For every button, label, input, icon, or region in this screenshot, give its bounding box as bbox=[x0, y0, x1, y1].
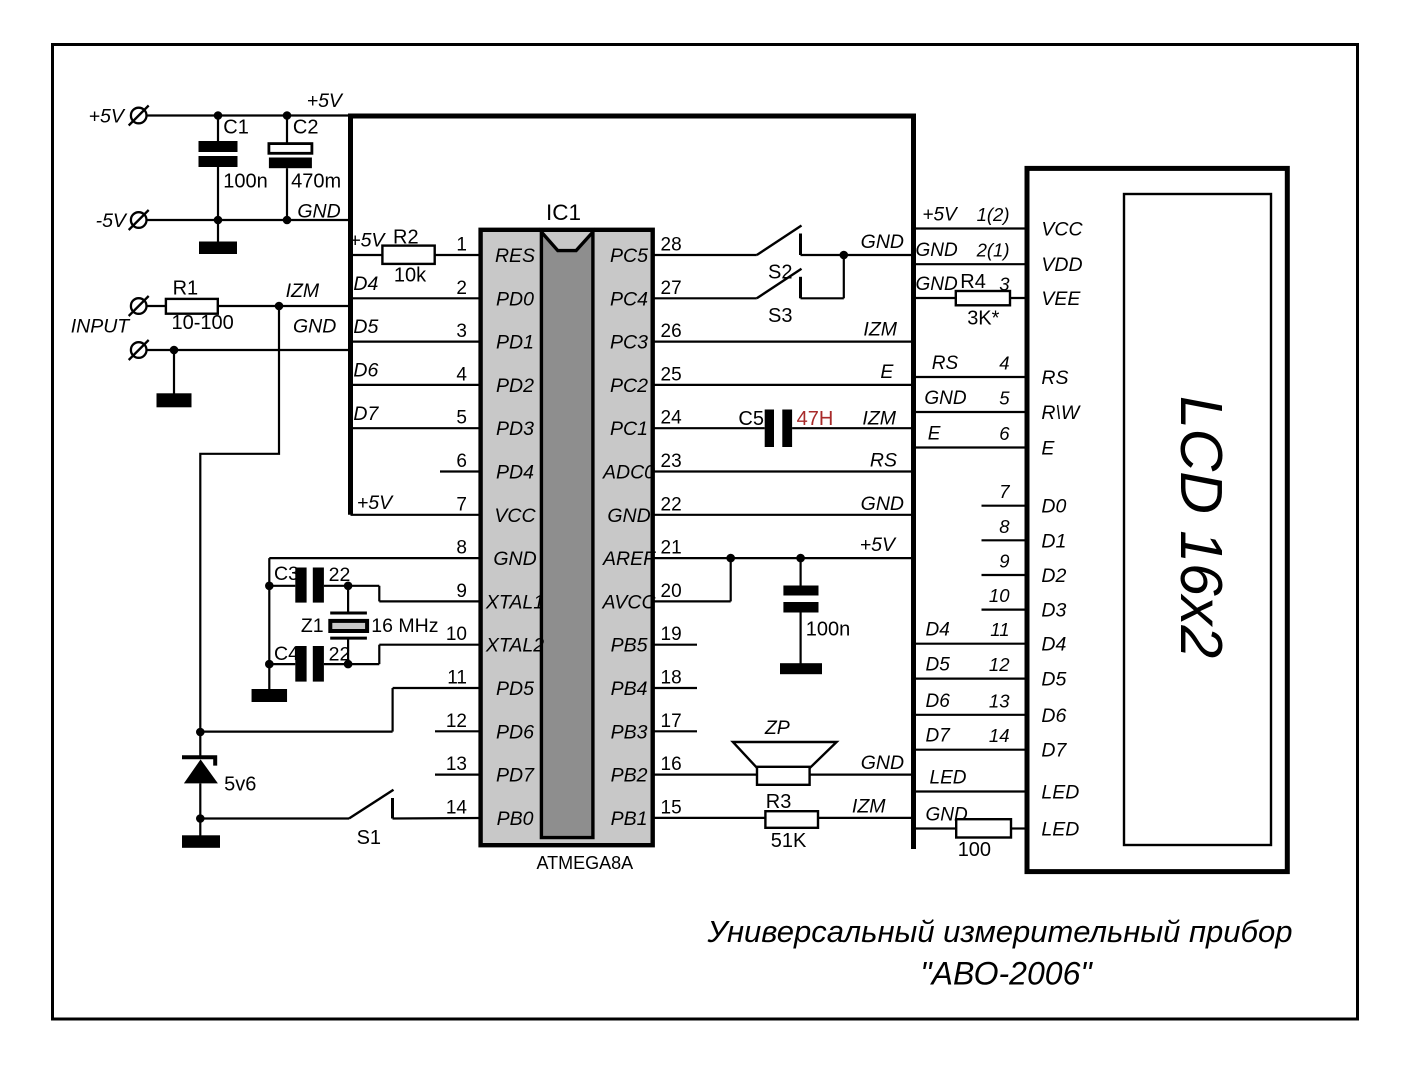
wire input GND to bus bbox=[147, 316, 353, 351]
svg-text:D6: D6 bbox=[353, 360, 378, 382]
svg-text:D5: D5 bbox=[1041, 669, 1066, 691]
value 5v6 (zener) bbox=[224, 774, 256, 796]
svg-text:9: 9 bbox=[999, 551, 1009, 572]
wire IZM to bus bbox=[218, 280, 352, 306]
svg-text:15: 15 bbox=[661, 797, 682, 818]
bus right vertical (thick) bbox=[911, 114, 916, 850]
svg-text:XTAL2: XTAL2 bbox=[485, 635, 544, 657]
zener diode 5v6 bbox=[182, 732, 218, 819]
svg-text:8: 8 bbox=[999, 516, 1010, 537]
wire D7 (pin 5) bbox=[353, 403, 481, 428]
wire PD5 (pin 11) to zener node bbox=[200, 688, 480, 732]
svg-text:RES: RES bbox=[495, 245, 535, 267]
capacitor 100n (AREF) bbox=[783, 558, 818, 664]
node junction C1 top bbox=[214, 111, 223, 120]
wire D5 (pin 3) bbox=[353, 316, 481, 342]
svg-text:PB0: PB0 bbox=[497, 808, 534, 830]
net label GND (pin28) bbox=[861, 231, 904, 253]
wire LCD pin 5 bbox=[916, 388, 1027, 413]
svg-text:7: 7 bbox=[999, 481, 1010, 502]
svg-text:20: 20 bbox=[661, 581, 682, 602]
wire R2 to pin 1 bbox=[435, 254, 481, 256]
caption line 1 bbox=[707, 914, 1293, 949]
svg-text:11: 11 bbox=[447, 668, 467, 689]
wire D6 (pin 4) bbox=[353, 360, 481, 385]
value 16 MHz (Z1) bbox=[371, 615, 438, 637]
svg-text:RS: RS bbox=[1041, 367, 1068, 389]
svg-text:D7: D7 bbox=[353, 403, 379, 425]
svg-text:1(2): 1(2) bbox=[977, 204, 1010, 225]
svg-text:13: 13 bbox=[446, 754, 467, 775]
svg-text:C5: C5 bbox=[738, 408, 764, 430]
svg-text:AVCC: AVCC bbox=[601, 591, 656, 613]
svg-text:22: 22 bbox=[329, 643, 351, 665]
svg-text:S2: S2 bbox=[768, 262, 792, 284]
capacitor C3 bbox=[269, 563, 348, 603]
switch S3 (pin 27) bbox=[653, 255, 844, 327]
wire D4 (pin 2) bbox=[353, 273, 481, 298]
stub pin 19 PB5 bbox=[653, 644, 697, 646]
svg-text:D7: D7 bbox=[1041, 740, 1067, 762]
net label GND (power) bbox=[297, 201, 340, 223]
op IC1 body (ATMEGA8A) bbox=[481, 230, 653, 845]
svg-text:R1: R1 bbox=[173, 278, 199, 300]
wire LCD pin 12 bbox=[916, 654, 1027, 679]
bus left vertical (thick) bbox=[348, 114, 353, 515]
wire LCD pin 14 bbox=[916, 725, 1027, 750]
svg-text:R3: R3 bbox=[766, 791, 792, 813]
svg-text:"АВО-2006": "АВО-2006" bbox=[920, 956, 1093, 992]
ground (zener) bbox=[182, 819, 220, 848]
label ATMEGA8A bbox=[537, 853, 634, 873]
svg-text:+5V: +5V bbox=[307, 90, 344, 112]
terminal INPUT ground bbox=[129, 340, 149, 360]
crystal Z1 16 MHz bbox=[301, 586, 367, 664]
svg-text:5: 5 bbox=[999, 388, 1010, 409]
wire VCC +5V (pin 7) bbox=[351, 492, 481, 515]
svg-text:26: 26 bbox=[661, 321, 682, 342]
label LCD 16x2 bbox=[1168, 396, 1234, 658]
svg-text:16: 16 bbox=[661, 754, 682, 775]
svg-text:4: 4 bbox=[456, 364, 467, 385]
wire LCD pin 16 bbox=[916, 805, 1027, 829]
value 100n (AREF cap) bbox=[806, 619, 851, 641]
svg-text:4: 4 bbox=[999, 353, 1009, 374]
svg-text:D5: D5 bbox=[353, 316, 378, 338]
svg-text:INPUT: INPUT bbox=[71, 316, 132, 338]
ground (crystal) bbox=[252, 689, 287, 702]
caption line 2 bbox=[920, 956, 1093, 992]
bus +5V top (thick) bbox=[348, 114, 916, 119]
stub LCD pin 7 bbox=[982, 481, 1028, 506]
svg-text:RS: RS bbox=[932, 353, 959, 374]
svg-text:GND: GND bbox=[607, 505, 650, 527]
wire XTAL1 jog (pin 9) bbox=[348, 586, 481, 602]
stub LCD pin 10 bbox=[982, 585, 1028, 610]
svg-text:R4: R4 bbox=[960, 271, 986, 293]
resistor 100 (LED) bbox=[956, 819, 1011, 837]
wire -5V/GND to bus bbox=[147, 216, 353, 225]
svg-text:PB2: PB2 bbox=[611, 765, 648, 787]
svg-text:E: E bbox=[1041, 438, 1055, 460]
svg-text:25: 25 bbox=[661, 364, 682, 385]
value 470m (C2) bbox=[291, 171, 341, 193]
svg-text:100n: 100n bbox=[223, 171, 267, 193]
resistor R2 bbox=[349, 227, 434, 264]
IC1 left pin names and numbers 1-14 bbox=[446, 235, 544, 830]
svg-text:LED: LED bbox=[930, 768, 967, 789]
wire LCD pin 3 bbox=[916, 274, 1028, 299]
switch S2 (pin 28) bbox=[653, 226, 916, 284]
svg-text:VDD: VDD bbox=[1041, 254, 1082, 276]
svg-text:9: 9 bbox=[456, 581, 467, 602]
terminal -5V input bbox=[96, 210, 149, 232]
node crystal top junction bbox=[344, 582, 353, 591]
svg-text:Универсальный измерительный пр: Универсальный измерительный прибор bbox=[707, 914, 1293, 949]
wire XTAL2 jog (pin 10) bbox=[348, 645, 481, 664]
svg-text:12: 12 bbox=[446, 711, 467, 732]
svg-text:+5V: +5V bbox=[349, 230, 386, 252]
svg-text:IC1: IC1 bbox=[546, 200, 581, 225]
capacitor C4 bbox=[269, 643, 348, 682]
resistor R3 (pin 15) bbox=[653, 791, 916, 828]
svg-text:R2: R2 bbox=[393, 227, 419, 249]
svg-text:C3: C3 bbox=[274, 563, 299, 585]
svg-text:28: 28 bbox=[661, 235, 682, 256]
node input-gnd junction bbox=[170, 346, 179, 355]
net label GND (pin16) bbox=[861, 752, 904, 774]
svg-text:LED: LED bbox=[1041, 782, 1079, 804]
LCD pin labels VCC..LED bbox=[1041, 219, 1083, 841]
svg-text:XTAL1: XTAL1 bbox=[485, 591, 544, 613]
wire LCD pin 4 bbox=[916, 353, 1027, 378]
svg-text:18: 18 bbox=[661, 668, 682, 689]
wire IZM down to zener node bbox=[200, 306, 279, 732]
svg-text:+5V: +5V bbox=[89, 105, 126, 127]
value 3K* (R4) bbox=[967, 308, 999, 330]
svg-text:11: 11 bbox=[990, 619, 1009, 640]
svg-text:2(1): 2(1) bbox=[976, 240, 1010, 261]
value 100n (C1) bbox=[223, 171, 267, 193]
svg-text:D4: D4 bbox=[353, 273, 378, 295]
svg-text:E: E bbox=[928, 424, 941, 445]
wire LCD pin 2 bbox=[916, 240, 1028, 265]
svg-text:PD6: PD6 bbox=[496, 721, 534, 743]
node C4 left junction bbox=[265, 660, 274, 669]
svg-text:21: 21 bbox=[661, 538, 682, 559]
svg-text:VEE: VEE bbox=[1041, 288, 1081, 310]
wire +5V input to bus bbox=[147, 114, 353, 116]
capacitor C2 (polarized) bbox=[269, 116, 319, 221]
svg-text:10: 10 bbox=[989, 585, 1010, 606]
resistor R1 bbox=[147, 278, 218, 314]
label IC1 bbox=[546, 200, 581, 225]
wire LCD pin 15 bbox=[916, 768, 1027, 792]
svg-text:100: 100 bbox=[958, 839, 991, 861]
svg-text:C1: C1 bbox=[223, 117, 249, 139]
svg-text:RS: RS bbox=[870, 450, 897, 472]
svg-text:5: 5 bbox=[456, 408, 467, 429]
svg-text:PD5: PD5 bbox=[496, 678, 534, 700]
svg-text:10-100: 10-100 bbox=[172, 312, 234, 334]
ground (100n cap) bbox=[780, 663, 822, 674]
svg-text:51K: 51K bbox=[771, 830, 807, 852]
LCD module block bbox=[1027, 168, 1287, 871]
svg-text:PC3: PC3 bbox=[610, 332, 648, 354]
svg-text:PD4: PD4 bbox=[496, 462, 534, 484]
svg-text:IZM: IZM bbox=[862, 408, 896, 430]
svg-text:S3: S3 bbox=[768, 305, 792, 327]
svg-text:PD7: PD7 bbox=[496, 765, 535, 787]
svg-text:IZM: IZM bbox=[863, 319, 897, 341]
svg-text:+5V: +5V bbox=[357, 492, 394, 514]
value 10-100 (R1) bbox=[172, 312, 234, 334]
svg-text:5v6: 5v6 bbox=[224, 774, 256, 796]
terminal +5V input bbox=[89, 105, 149, 127]
svg-text:D2: D2 bbox=[1041, 565, 1066, 587]
svg-text:3: 3 bbox=[456, 321, 467, 342]
ground (below C1) bbox=[199, 220, 237, 254]
svg-text:S1: S1 bbox=[357, 827, 381, 849]
svg-text:23: 23 bbox=[661, 451, 682, 472]
svg-text:D6: D6 bbox=[1041, 705, 1066, 727]
svg-text:GND: GND bbox=[493, 548, 536, 570]
wire GND pin 8 net bbox=[269, 558, 480, 690]
svg-text:ADC0: ADC0 bbox=[602, 462, 655, 484]
svg-text:PD0: PD0 bbox=[496, 288, 534, 310]
svg-text:PC2: PC2 bbox=[610, 375, 648, 397]
svg-text:13: 13 bbox=[989, 690, 1010, 711]
svg-text:D4: D4 bbox=[926, 620, 950, 641]
svg-text:14: 14 bbox=[989, 725, 1010, 746]
svg-text:LCD 16x2: LCD 16x2 bbox=[1168, 396, 1234, 658]
svg-text:PD1: PD1 bbox=[496, 332, 534, 354]
wire AVCC (pin 20) bbox=[653, 558, 731, 601]
wire GND (pin 22) bbox=[653, 493, 916, 515]
svg-text:47Н: 47Н bbox=[797, 408, 834, 430]
svg-text:PB5: PB5 bbox=[611, 635, 648, 657]
value 51K (R3) bbox=[771, 830, 807, 852]
svg-text:ZP: ZP bbox=[764, 717, 790, 739]
stub pin 6 PD4 bbox=[440, 470, 481, 472]
svg-text:GND: GND bbox=[293, 316, 336, 338]
wire LCD pin 6 bbox=[916, 423, 1027, 448]
stub pin 18 PB4 bbox=[653, 687, 697, 689]
svg-text:6: 6 bbox=[456, 451, 467, 472]
wire E (pin 25) bbox=[653, 361, 916, 385]
value 100 (LED resistor) bbox=[958, 839, 991, 861]
svg-text:PC5: PC5 bbox=[610, 245, 648, 267]
svg-text:16 MHz: 16 MHz bbox=[371, 615, 438, 637]
node 100n junction bbox=[796, 554, 805, 563]
svg-text:PD3: PD3 bbox=[496, 418, 534, 440]
svg-text:D5: D5 bbox=[926, 655, 951, 676]
svg-text:24: 24 bbox=[661, 408, 683, 429]
buzzer ZP (pin 16) bbox=[653, 717, 916, 785]
svg-text:10k: 10k bbox=[394, 265, 427, 287]
capacitor C1 bbox=[199, 116, 249, 221]
svg-text:IZM: IZM bbox=[852, 796, 886, 818]
svg-text:+5V: +5V bbox=[922, 205, 959, 226]
svg-text:470m: 470m bbox=[291, 171, 341, 193]
svg-text:PB1: PB1 bbox=[611, 808, 648, 830]
ground (input) bbox=[157, 350, 192, 407]
value 22 (C3) bbox=[329, 564, 351, 586]
node crystal bottom junction bbox=[344, 660, 353, 669]
svg-text:GND: GND bbox=[924, 388, 967, 409]
svg-text:VCC: VCC bbox=[1041, 219, 1083, 241]
svg-text:R\W: R\W bbox=[1041, 402, 1081, 424]
svg-text:D3: D3 bbox=[1041, 600, 1066, 622]
svg-text:AREF: AREF bbox=[602, 548, 656, 570]
switch S1 bbox=[200, 790, 480, 849]
svg-text:D6: D6 bbox=[926, 691, 951, 712]
node junction C2 top bbox=[283, 90, 344, 120]
svg-text:7: 7 bbox=[456, 494, 467, 515]
svg-text:D1: D1 bbox=[1041, 530, 1066, 552]
svg-text:GND: GND bbox=[861, 752, 904, 774]
svg-text:LED: LED bbox=[1041, 819, 1079, 841]
svg-text:+5V: +5V bbox=[860, 534, 897, 556]
svg-text:6: 6 bbox=[999, 423, 1010, 444]
value 10k (R2) bbox=[394, 265, 427, 287]
value 47H (C5) bbox=[797, 408, 834, 430]
svg-text:D0: D0 bbox=[1041, 496, 1066, 518]
svg-text:12: 12 bbox=[989, 654, 1010, 675]
wire IZM (pin 26) bbox=[653, 319, 916, 342]
stub pin 13 PD7 bbox=[435, 773, 481, 775]
capacitor C5 (pin 24) bbox=[653, 408, 916, 447]
node IZM junction bbox=[275, 302, 284, 311]
svg-text:3K*: 3K* bbox=[967, 308, 999, 330]
wire LCD pin 11 bbox=[916, 619, 1027, 644]
resistor R4 bbox=[956, 271, 1010, 305]
svg-text:GND: GND bbox=[916, 240, 959, 261]
svg-text:17: 17 bbox=[661, 711, 682, 732]
svg-text:VCC: VCC bbox=[494, 505, 536, 527]
svg-text:100n: 100n bbox=[806, 619, 851, 641]
net label IZM (pin24) bbox=[862, 408, 896, 430]
wire LCD pin 13 bbox=[916, 690, 1027, 715]
wire LCD pin 1 bbox=[916, 204, 1027, 229]
svg-text:PB3: PB3 bbox=[611, 721, 648, 743]
svg-text:22: 22 bbox=[661, 494, 682, 515]
IC1 right pin names and numbers 28-15 bbox=[601, 235, 682, 830]
value 22 (C4) bbox=[329, 643, 351, 665]
svg-text:14: 14 bbox=[446, 797, 468, 818]
svg-text:2: 2 bbox=[456, 278, 467, 299]
node C3 left junction bbox=[265, 582, 274, 591]
svg-text:8: 8 bbox=[456, 538, 467, 559]
svg-text:E: E bbox=[880, 361, 894, 383]
svg-text:ATMEGA8A: ATMEGA8A bbox=[537, 853, 634, 873]
svg-text:D4: D4 bbox=[1041, 634, 1066, 656]
svg-text:C2: C2 bbox=[293, 117, 319, 139]
svg-text:PC4: PC4 bbox=[610, 288, 648, 310]
stub pin 17 PB3 bbox=[653, 730, 697, 732]
wire +5V (pin 21) bbox=[653, 534, 916, 558]
svg-text:10: 10 bbox=[446, 624, 467, 645]
svg-text:GND: GND bbox=[861, 231, 904, 253]
svg-text:IZM: IZM bbox=[286, 280, 320, 302]
wire RS (pin 23) bbox=[653, 450, 916, 472]
svg-text:PC1: PC1 bbox=[610, 418, 648, 440]
node zener top bbox=[196, 728, 205, 737]
svg-text:GND: GND bbox=[916, 274, 959, 295]
node S2/S3 junction bbox=[840, 251, 849, 260]
svg-text:19: 19 bbox=[661, 624, 682, 645]
stub LCD pin 9 bbox=[982, 551, 1028, 576]
stub LCD pin 8 bbox=[982, 516, 1028, 541]
svg-text:GND: GND bbox=[861, 493, 904, 515]
svg-text:C4: C4 bbox=[274, 643, 299, 665]
net label IZM (pin15) bbox=[852, 796, 886, 818]
svg-text:Z1: Z1 bbox=[301, 615, 324, 637]
svg-text:-5V: -5V bbox=[96, 210, 128, 232]
stub pin 12 PD6 bbox=[435, 730, 481, 732]
node AVCC junction bbox=[726, 554, 735, 563]
node zener bottom bbox=[196, 814, 205, 823]
svg-text:D7: D7 bbox=[926, 726, 952, 747]
terminal INPUT bbox=[71, 296, 149, 338]
svg-text:1: 1 bbox=[456, 235, 467, 256]
svg-text:PD2: PD2 bbox=[496, 375, 534, 397]
svg-text:PB4: PB4 bbox=[611, 678, 648, 700]
svg-text:27: 27 bbox=[661, 278, 682, 299]
